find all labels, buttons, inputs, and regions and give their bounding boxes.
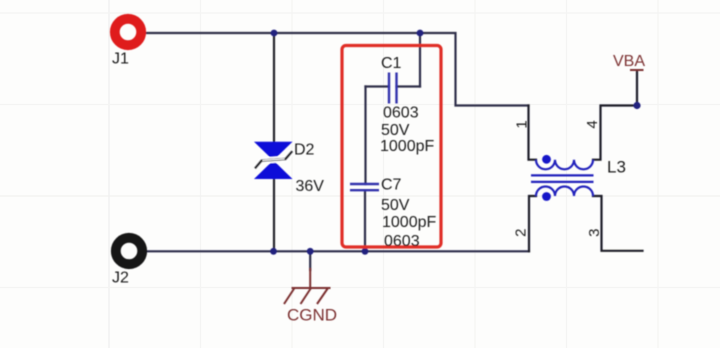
svg-text:0603: 0603: [384, 233, 420, 250]
svg-text:J2: J2: [112, 270, 129, 287]
svg-text:1000pF: 1000pF: [382, 214, 436, 231]
svg-text:1000pF: 1000pF: [380, 138, 434, 155]
svg-text:0603: 0603: [383, 105, 419, 122]
svg-text:CGND: CGND: [287, 306, 337, 325]
svg-text:C1: C1: [381, 55, 402, 72]
svg-text:3: 3: [586, 229, 603, 237]
svg-text:VBA: VBA: [613, 53, 645, 70]
svg-text:C7: C7: [381, 176, 402, 193]
svg-text:1: 1: [513, 120, 530, 128]
svg-text:4: 4: [584, 120, 601, 128]
svg-text:50V: 50V: [381, 197, 410, 214]
svg-text:J1: J1: [112, 51, 129, 68]
svg-text:50V: 50V: [381, 122, 410, 139]
svg-text:L3: L3: [607, 158, 626, 177]
svg-text:2: 2: [512, 229, 529, 237]
svg-text:D2: D2: [294, 141, 315, 158]
svg-text:36V: 36V: [296, 178, 325, 195]
